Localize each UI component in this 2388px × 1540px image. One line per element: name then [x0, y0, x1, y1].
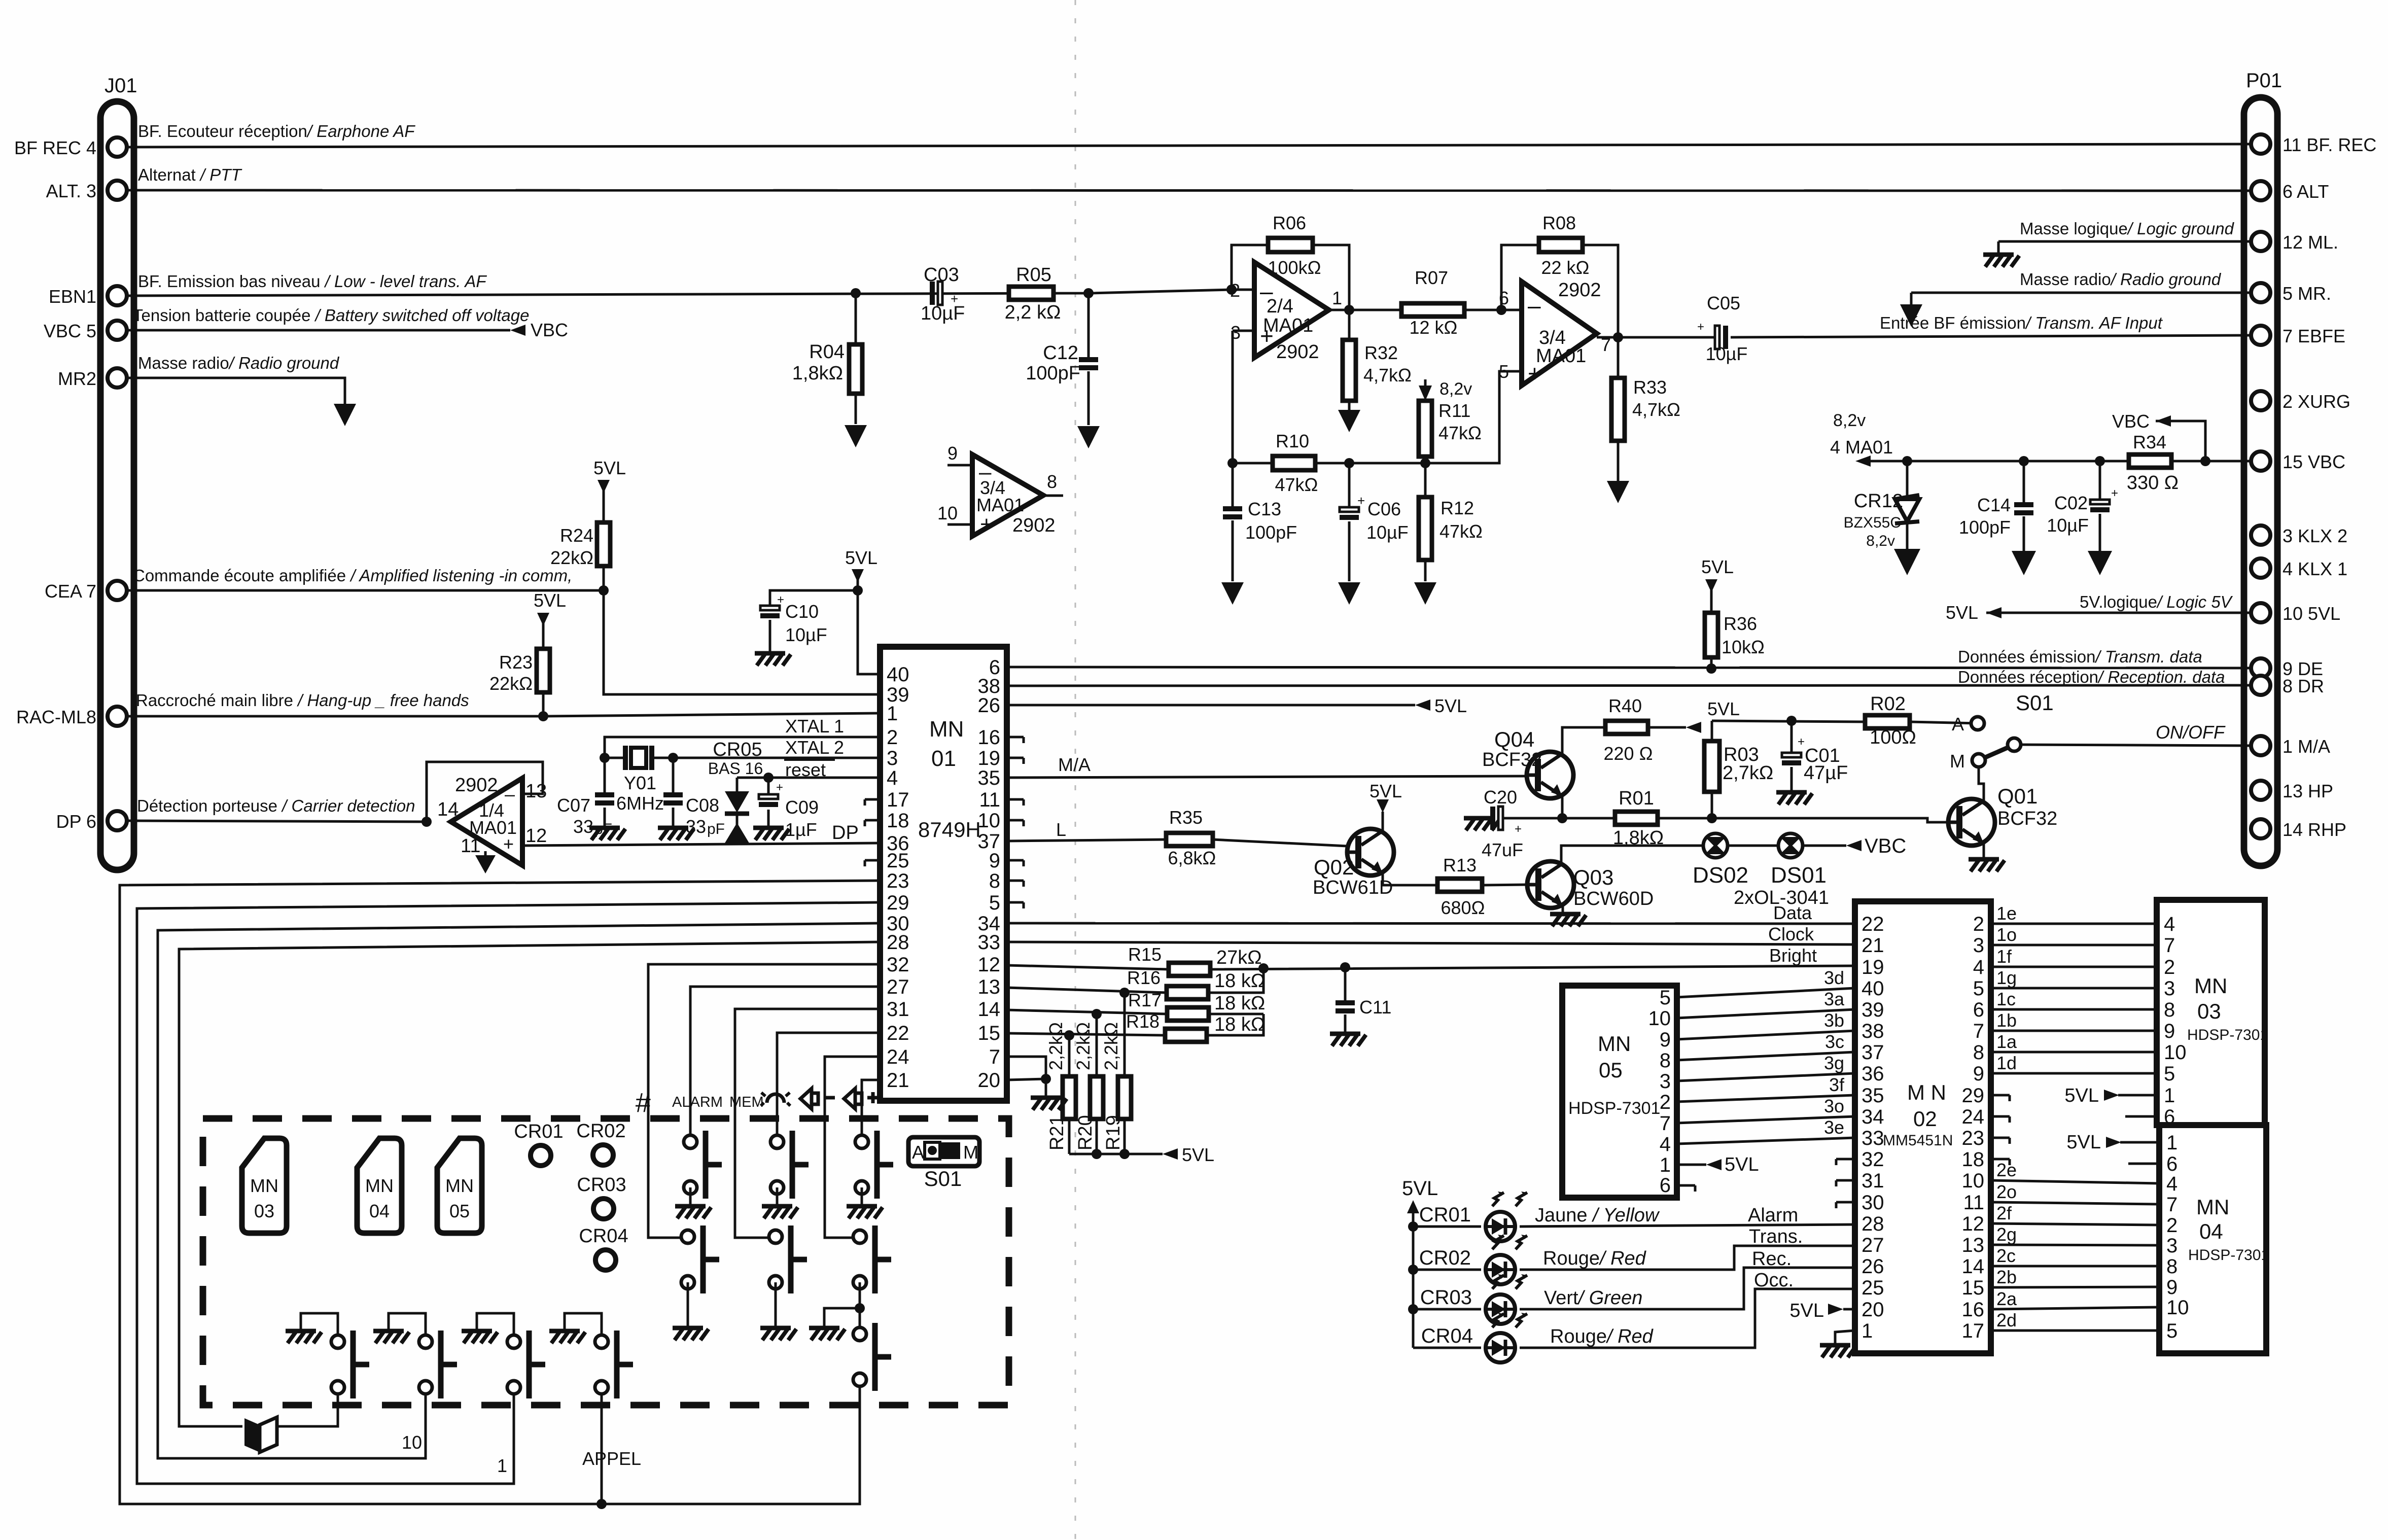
node U2 output — [1613, 332, 1623, 342]
svg-text:36: 36 — [1862, 1063, 1884, 1085]
wire Q03 emitter to ground — [1562, 906, 1564, 912]
svg-text:+: + — [1357, 493, 1365, 508]
svg-text:10µF: 10µF — [785, 624, 827, 645]
scan fold line — [1075, 0, 1076, 1540]
wire R17 row — [1007, 1010, 1263, 1014]
P01 pin 9 DE — [2251, 658, 2270, 678]
wire R24 bottom — [603, 566, 605, 590]
svg-text:VBC: VBC — [2112, 411, 2150, 432]
svg-text:C06: C06 — [1367, 499, 1401, 519]
svg-text:5VL: 5VL — [1707, 698, 1740, 719]
svg-text:03: 03 — [2197, 999, 2221, 1023]
wire row2 col1356 to ground — [687, 1282, 689, 1326]
stub MN04 pin 6 — [2128, 1163, 2159, 1165]
svg-text:6: 6 — [1973, 999, 1984, 1021]
svg-text:4,7kΩ: 4,7kΩ — [1632, 399, 1680, 420]
svg-text:MN: MN — [2196, 1195, 2229, 1219]
svg-text:3: 3 — [1973, 934, 1984, 957]
node R12 — [1420, 458, 1430, 468]
svg-text:2: 2 — [1973, 913, 1984, 935]
svg-text:15: 15 — [1962, 1277, 1985, 1299]
svg-text:3: 3 — [2166, 1235, 2178, 1257]
svg-text:DP: DP — [832, 822, 859, 844]
svg-text:2 XURG: 2 XURG — [2282, 391, 2350, 412]
svg-text:12: 12 — [978, 954, 1001, 976]
svg-text:10: 10 — [978, 810, 1001, 832]
capacitor C06 — [1348, 463, 1351, 581]
svg-text:C08: C08 — [686, 795, 719, 816]
P01 pin 6 ALT — [2251, 181, 2270, 200]
svg-text:27: 27 — [1862, 1234, 1884, 1256]
wire CR01 row — [1413, 1224, 1855, 1227]
IC MN04 HDSP-7301 — [2159, 1125, 2266, 1353]
svg-text:17: 17 — [1962, 1320, 1985, 1342]
svg-text:Alternat / PTT: Alternat / PTT — [138, 165, 242, 184]
pushbutton row2 spk+ col — [853, 1226, 891, 1293]
wire DE net — [1007, 667, 2252, 668]
keycap MN04 — [357, 1138, 402, 1233]
svg-text:MN: MN — [2194, 974, 2227, 998]
node U2 inverting input — [1496, 305, 1506, 315]
svg-text:40: 40 — [1862, 977, 1884, 1000]
wire U4 output (DP) — [522, 843, 880, 846]
svg-text:VBC 5: VBC 5 — [44, 321, 96, 341]
svg-text:Data: Data — [1773, 902, 1812, 923]
wire CEA to MN01 pin39 — [604, 590, 880, 694]
node CEA-R24 — [599, 585, 609, 596]
wire MN05 pin 10 to MN02 — [1677, 1009, 1855, 1018]
svg-text:14: 14 — [978, 998, 1001, 1021]
svg-text:14: 14 — [437, 799, 459, 820]
svg-text:M: M — [963, 1142, 978, 1163]
svg-text:5VL: 5VL — [2064, 1085, 2099, 1106]
capacitor C10 — [770, 590, 858, 651]
capacitor C03 — [930, 282, 935, 305]
svg-text:12: 12 — [1962, 1213, 1985, 1235]
svg-text:8 DR: 8 DR — [2282, 676, 2324, 696]
node CR01 — [1408, 1221, 1418, 1232]
svg-text:4,7kΩ: 4,7kΩ — [1363, 365, 1412, 386]
svg-text:BCW61D: BCW61D — [1313, 877, 1393, 898]
svg-text:R32: R32 — [1364, 342, 1398, 363]
svg-text:5VL: 5VL — [1789, 1300, 1824, 1321]
svg-text:47kΩ: 47kΩ — [1438, 423, 1482, 443]
svg-text:20: 20 — [1862, 1299, 1884, 1321]
transistor Q01 BCF32 — [1948, 799, 1995, 846]
resistor R24 — [597, 522, 610, 566]
svg-text:5 MR.: 5 MR. — [2282, 283, 2331, 304]
resistor R07 — [1401, 303, 1464, 317]
svg-text:C09: C09 — [785, 797, 819, 818]
svg-text:01: 01 — [931, 746, 956, 771]
svg-text:15: 15 — [978, 1022, 1001, 1044]
svg-text:Détection porteuse / Carrier d: Détection porteuse / Carrier detection — [137, 796, 415, 815]
svg-text:20: 20 — [978, 1069, 1001, 1092]
svg-text:2a: 2a — [1996, 1288, 2017, 1309]
resistor R35 — [1166, 833, 1213, 846]
resistor R10 — [1273, 456, 1315, 470]
svg-text:Données émission/ Transm. data: Données émission/ Transm. data — [1958, 647, 2202, 666]
svg-text:4: 4 — [1973, 956, 1984, 978]
capacitor C02 — [2099, 461, 2101, 553]
ground bottom col839 — [373, 1331, 409, 1343]
transistor Q04 BCF32 — [1527, 752, 1573, 798]
svg-text:4: 4 — [2164, 913, 2175, 935]
resistor R01 — [1615, 812, 1658, 825]
svg-text:1g: 1g — [1996, 967, 2017, 988]
svg-text:2902: 2902 — [1012, 515, 1056, 536]
wire net 1c — [1991, 1008, 2157, 1011]
ground logic ML — [1983, 255, 2019, 267]
stub MN01 pin 11 right — [1007, 799, 1024, 806]
svg-text:12: 12 — [525, 825, 547, 847]
wire MN01 pin29 to keypad rail 1 — [137, 902, 880, 1484]
wire net 2c — [1991, 1265, 2159, 1268]
ground C10 — [755, 653, 791, 666]
wire VBC tap — [2156, 421, 2205, 461]
svg-text:ALT. 3: ALT. 3 — [46, 181, 96, 201]
wire Clock net — [1007, 942, 1855, 944]
svg-text:Occ.: Occ. — [1754, 1270, 1794, 1291]
svg-text:100kΩ: 100kΩ — [1268, 257, 1321, 278]
svg-text:1o: 1o — [1996, 924, 2017, 945]
resistor R08 — [1539, 238, 1583, 252]
stub MN01 pin 18 left — [865, 820, 880, 826]
svg-text:+: + — [503, 833, 514, 854]
svg-text:2,2 kΩ: 2,2 kΩ — [1005, 302, 1061, 323]
svg-text:1: 1 — [887, 703, 898, 725]
wire net 2o — [1991, 1202, 2159, 1204]
svg-text:A: A — [912, 1142, 924, 1163]
svg-text:2f: 2f — [1996, 1203, 2012, 1223]
svg-text:27kΩ: 27kΩ — [1216, 947, 1262, 968]
net arrow 8.2v rail — [1855, 456, 1871, 467]
P01 pin 8 DR — [2251, 676, 2270, 695]
wire U3 pin10 stub — [947, 523, 972, 526]
svg-text:5V.logique/ Logic 5V: 5V.logique/ Logic 5V — [2080, 592, 2233, 611]
op-amp U2 3/4 MA01 — [1522, 282, 1597, 386]
svg-text:R10: R10 — [1276, 431, 1309, 451]
transistor Q02 BCW61D — [1347, 829, 1394, 876]
wire XTAL1 net — [605, 737, 880, 758]
svg-text:18: 18 — [1962, 1148, 1985, 1171]
wire L net — [1007, 839, 1347, 846]
ground Q01 — [1969, 859, 2005, 871]
wire row2 spk+ junction — [859, 1282, 861, 1327]
net arrow 5VL pin26 — [1415, 699, 1430, 711]
stub MN02 pin 23 right — [1991, 1138, 2010, 1144]
svg-text:330 Ω: 330 Ω — [2127, 472, 2179, 494]
node C09 — [763, 773, 774, 783]
svg-text:1,8kΩ: 1,8kΩ — [792, 363, 843, 384]
svg-text:Raccroché main libre / Hang-u: Raccroché main libre / Hang-up _ free ha… — [136, 691, 469, 710]
stub MN02 pin 29 right — [1991, 1095, 2010, 1101]
svg-text:9: 9 — [2166, 1276, 2178, 1299]
svg-text:C07: C07 — [557, 795, 590, 816]
svg-text:13 HP: 13 HP — [2282, 781, 2333, 801]
wire column spk- (pin24) — [825, 1057, 880, 1238]
svg-text:2d: 2d — [1996, 1310, 2017, 1331]
svg-text:5VL: 5VL — [1701, 556, 1734, 577]
svg-text:R33: R33 — [1633, 377, 1667, 398]
svg-text:4 KLX 1: 4 KLX 1 — [2282, 558, 2347, 579]
svg-text:31: 31 — [887, 998, 909, 1021]
svg-text:9: 9 — [947, 443, 958, 464]
svg-text:5VL: 5VL — [1725, 1154, 1759, 1175]
P01 pin 4 KLX 1 — [2251, 558, 2270, 578]
svg-text:2g: 2g — [1996, 1224, 2017, 1245]
wire U1 output to R07 — [1329, 309, 1522, 311]
node row2 spk+ — [855, 1303, 865, 1313]
svg-text:CR03: CR03 — [1420, 1286, 1472, 1309]
svg-text:Q03: Q03 — [1573, 865, 1613, 889]
P01 pin 15 VBC — [2251, 451, 2270, 471]
svg-text:1f: 1f — [1996, 946, 2012, 967]
resistor R34 — [2129, 454, 2171, 468]
wire net 1d — [1991, 1072, 2157, 1075]
svg-text:8,2v: 8,2v — [1439, 379, 1472, 399]
svg-text:S01: S01 — [924, 1167, 962, 1191]
resistor R18 — [1165, 1029, 1207, 1042]
diode CR05 BAS16 — [736, 778, 739, 825]
svg-text:S01: S01 — [2016, 691, 2054, 715]
svg-text:MR2: MR2 — [58, 368, 96, 389]
svg-text:5VL: 5VL — [845, 547, 877, 568]
svg-text:BF. Ecouteur réception/ Earph: BF. Ecouteur réception/ Earphone AF — [138, 122, 415, 141]
svg-text:1a: 1a — [1996, 1031, 2017, 1052]
net arrow VBC lamps — [1846, 840, 1862, 851]
resistor R13 — [1437, 879, 1482, 892]
svg-text:40: 40 — [887, 663, 909, 686]
wire BF REC net — [126, 144, 2252, 147]
svg-text:MN: MN — [445, 1175, 474, 1196]
svg-text:C05: C05 — [1707, 293, 1740, 313]
node R19 bottom — [1119, 1149, 1130, 1159]
svg-text:680Ω: 680Ω — [1441, 897, 1485, 918]
node CR02 — [1408, 1265, 1418, 1275]
wire bottom col1013 to rail — [513, 1394, 515, 1484]
stub MN02 pin 24 right — [1991, 1116, 2010, 1123]
svg-text:R12: R12 — [1441, 498, 1474, 518]
svg-text:34: 34 — [1862, 1106, 1884, 1128]
svg-text:10: 10 — [1648, 1007, 1671, 1030]
svg-text:47µF: 47µF — [1804, 762, 1848, 784]
wire bottom col666 to rail — [337, 1394, 339, 1426]
svg-text:14 RHP: 14 RHP — [2282, 819, 2346, 840]
zener diode CR12 — [1906, 461, 1909, 553]
svg-text:Q02: Q02 — [1314, 855, 1354, 879]
svg-text:1,8kΩ: 1,8kΩ — [1613, 827, 1664, 849]
svg-text:pF: pF — [707, 821, 725, 837]
wire DP net — [126, 821, 427, 822]
svg-text:5: 5 — [1660, 987, 1671, 1009]
wire MN05 pin1 5VL — [1677, 1164, 1706, 1166]
capacitor C08 — [672, 758, 675, 826]
svg-text:R08: R08 — [1542, 213, 1576, 233]
net arrow 5VL ladder — [1163, 1148, 1178, 1160]
svg-text:R15: R15 — [1128, 944, 1162, 965]
net arrow 5VL MN05 — [1706, 1159, 1722, 1170]
svg-text:25: 25 — [887, 850, 909, 872]
wire net 2f — [1991, 1223, 2159, 1225]
svg-text:R11: R11 — [1438, 400, 1470, 421]
svg-text:Trans.: Trans. — [1749, 1226, 1803, 1247]
svg-text:1c: 1c — [1996, 989, 2016, 1009]
svg-text:12 ML.: 12 ML. — [2282, 232, 2338, 253]
svg-text:19: 19 — [978, 747, 1001, 769]
wire MN02 pin1 ground — [1835, 1331, 1855, 1343]
P01 pin 7 EBFE — [2251, 326, 2270, 345]
svg-text:8: 8 — [2166, 1255, 2178, 1278]
svg-text:R20: R20 — [1075, 1115, 1096, 1150]
svg-text:7: 7 — [2166, 1194, 2178, 1216]
svg-text:3b: 3b — [1824, 1010, 1844, 1031]
resistor R17 — [1167, 1007, 1209, 1021]
svg-text:24: 24 — [1962, 1106, 1985, 1128]
P01 pin 1 M/A — [2251, 736, 2270, 755]
svg-text:16: 16 — [978, 726, 1001, 749]
svg-text:5: 5 — [2164, 1063, 2175, 1085]
pushbutton row2 col1356 — [681, 1226, 719, 1293]
svg-text:4: 4 — [1660, 1133, 1671, 1156]
svg-text:R05: R05 — [1016, 264, 1051, 286]
pushbutton bottom col1186 — [595, 1331, 633, 1398]
wire U4 feedback — [427, 762, 543, 822]
node 5VL-C10 — [853, 585, 863, 596]
ground arrow C13 — [1221, 582, 1244, 605]
wire CEA net — [126, 589, 604, 592]
wire column MEM (pin31) — [735, 1009, 880, 1238]
resistor R05 — [1009, 287, 1053, 300]
wire net 2g — [1991, 1245, 2159, 1245]
svg-text:MN: MN — [365, 1175, 394, 1196]
ground row2 col1529 — [760, 1328, 796, 1340]
svg-text:1b: 1b — [1996, 1010, 2017, 1031]
switch S01 pivot and lever — [2008, 738, 2021, 751]
net arrow 5VL MN03 — [2104, 1090, 2119, 1101]
svg-text:8: 8 — [1660, 1049, 1671, 1072]
svg-text:8,2v: 8,2v — [1866, 533, 1895, 549]
svg-text:3d: 3d — [1824, 967, 1844, 988]
svg-text:5VL: 5VL — [2066, 1132, 2101, 1153]
svg-text:MN: MN — [1598, 1032, 1631, 1056]
svg-text:BCW60D: BCW60D — [1573, 888, 1654, 909]
svg-text:R04: R04 — [809, 341, 845, 363]
keycap MN03 — [242, 1138, 287, 1233]
svg-text:C10: C10 — [785, 601, 819, 622]
svg-text:C02: C02 — [2054, 493, 2088, 513]
wire R18 row — [1007, 1014, 1263, 1035]
svg-text:2b: 2b — [1996, 1267, 2017, 1287]
svg-text:22 kΩ: 22 kΩ — [1541, 257, 1590, 278]
svg-text:5VL: 5VL — [1434, 695, 1467, 716]
switch S01 terminal M — [1972, 754, 1985, 767]
svg-text:DP 6: DP 6 — [56, 811, 96, 832]
stub MN01 pin 17 left — [865, 799, 880, 806]
wire row1 col1532 to ground — [776, 1187, 779, 1204]
svg-text:47kΩ: 47kΩ — [1275, 474, 1318, 495]
resistor R03 — [1711, 721, 1713, 818]
svg-text:11: 11 — [979, 789, 1000, 811]
resistor R11 — [1419, 401, 1432, 457]
wire reset net — [737, 777, 880, 779]
svg-text:10: 10 — [2164, 1041, 2187, 1064]
svg-text:1 M/A: 1 M/A — [2282, 736, 2330, 757]
svg-text:25: 25 — [1862, 1277, 1884, 1299]
svg-text:1: 1 — [2164, 1084, 2175, 1107]
connector J01 body — [100, 101, 134, 870]
capacitor C13 — [1232, 463, 1234, 581]
pushbutton row1 col1699 — [855, 1131, 893, 1199]
node C01 — [1786, 716, 1797, 726]
wire MN05 pin 8 to MN02 — [1677, 1052, 1855, 1060]
svg-text:8749H: 8749H — [918, 818, 981, 842]
supply arrow 8.2v R11 — [1424, 379, 1427, 392]
svg-text:9: 9 — [1973, 1063, 1984, 1085]
svg-text:R34: R34 — [2133, 432, 2166, 452]
resistor R19 — [1123, 993, 1126, 1154]
J01 pin EBN1 — [108, 286, 127, 305]
svg-text:26: 26 — [1862, 1255, 1884, 1278]
svg-text:+: + — [1515, 822, 1522, 836]
wire net 1b — [1991, 1030, 2157, 1032]
svg-text:02: 02 — [1913, 1107, 1937, 1131]
svg-text:EBN1: EBN1 — [49, 286, 96, 307]
crystal Y01 6MHz — [605, 757, 673, 759]
ground arrow U4 — [484, 851, 487, 857]
J01 pin VBC 5 — [108, 321, 127, 340]
svg-text:23: 23 — [1962, 1127, 1985, 1149]
svg-text:7: 7 — [1660, 1112, 1671, 1135]
svg-text:29: 29 — [1962, 1084, 1985, 1107]
stub MN01 pin 10 right — [1007, 820, 1024, 826]
pushbutton row3 spk+ col — [853, 1323, 891, 1391]
svg-text:C20: C20 — [1484, 787, 1517, 808]
svg-text:5VL: 5VL — [1946, 602, 1978, 623]
ground row2 spk+ — [809, 1328, 845, 1340]
wire R19-21 to 5VL rail — [1069, 1153, 1163, 1156]
svg-text:+: + — [777, 593, 784, 607]
svg-text:R17: R17 — [1128, 990, 1162, 1010]
svg-text:47uF: 47uF — [1482, 839, 1523, 860]
svg-text:38: 38 — [1862, 1020, 1884, 1042]
svg-text:10µF: 10µF — [1706, 343, 1748, 364]
stub MN05 pin 6 — [1677, 1185, 1695, 1192]
svg-text:100pF: 100pF — [1026, 363, 1080, 384]
svg-text:4 MA01: 4 MA01 — [1830, 437, 1893, 458]
svg-text:10: 10 — [1962, 1170, 1985, 1192]
node R36-DE — [1706, 663, 1716, 674]
ground bottom col1013 — [462, 1331, 498, 1343]
wire bottom col666 arm to ground — [301, 1313, 338, 1335]
svg-text:18 kΩ: 18 kΩ — [1214, 1014, 1265, 1035]
wire U1 + input — [1233, 331, 1254, 463]
pushbutton bottom col666 — [331, 1331, 369, 1398]
node APPEL-rail — [596, 1499, 607, 1509]
resistor R12 — [1424, 463, 1427, 581]
node C02 — [2095, 456, 2105, 466]
svg-text:+: + — [1697, 320, 1704, 334]
svg-text:R23: R23 — [499, 652, 533, 673]
svg-text:MM5451N: MM5451N — [1883, 1132, 1953, 1149]
ground bottom col1186 — [549, 1331, 585, 1343]
svg-text:+: + — [776, 781, 783, 794]
wire column ALARM (pin27) — [690, 987, 880, 1135]
node C13 — [1227, 458, 1238, 468]
svg-text:2/4: 2/4 — [1267, 296, 1293, 317]
node Bright bus — [1258, 963, 1269, 973]
svg-text:100pF: 100pF — [1245, 522, 1297, 543]
